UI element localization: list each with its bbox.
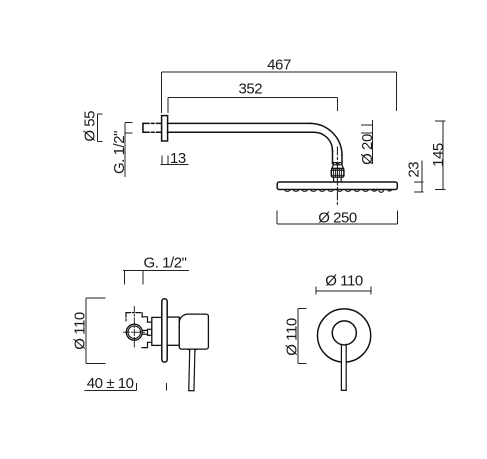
- cartridge sleeve: [167, 317, 179, 345]
- pipe centerline: [336, 147, 338, 206]
- handle base circle: [332, 321, 356, 345]
- dimension 145: [442, 121, 444, 190]
- svg-text:352: 352: [238, 80, 262, 97]
- connector collar tabs: [333, 163, 342, 167]
- svg-text:Ø 55: Ø 55: [82, 111, 99, 142]
- svg-text:Ø 110: Ø 110: [284, 318, 301, 356]
- svg-text:G. 1/2": G. 1/2": [143, 254, 186, 271]
- nozzle bumps under head: [285, 190, 392, 193]
- svg-text:467: 467: [267, 57, 291, 74]
- svg-text:23: 23: [406, 162, 423, 178]
- shower head plate: [277, 182, 397, 190]
- elbow inner arc: [314, 132, 333, 151]
- dimension D20: [371, 120, 373, 164]
- svg-text:Ø 110: Ø 110: [325, 272, 363, 289]
- housing top step: [142, 317, 152, 322]
- dimension 40 +/- 10: [85, 390, 137, 392]
- escutcheon outer circle: [318, 309, 371, 362]
- arm wall flange: [162, 116, 168, 141]
- arm pipe bottom line: [168, 131, 314, 133]
- dimension 467: [162, 71, 397, 73]
- arm pipe top line: [168, 122, 310, 124]
- handle body: [179, 314, 208, 349]
- dimension 13: [160, 164, 188, 166]
- lever fillets: [188, 349, 197, 351]
- valve body (behind wall): [152, 317, 162, 345]
- dimension D55: [96, 114, 98, 142]
- svg-text:145: 145: [430, 143, 447, 167]
- connector knurled nut: [331, 169, 344, 178]
- dimension D110 (top): [316, 290, 371, 292]
- nipple to valve body: [142, 329, 152, 335]
- elbow centerlines (dash-dot): [124, 307, 146, 348]
- dimension 352: [168, 96, 337, 98]
- svg-text:G. 1/2": G. 1/2": [111, 131, 128, 174]
- svg-text:Ø 20: Ø 20: [359, 134, 376, 165]
- label G 1/2 leader: [123, 270, 189, 272]
- dimension D110 (left): [297, 309, 299, 364]
- label G 1/2 leader: [124, 130, 126, 177]
- elbow outer arc: [310, 123, 342, 155]
- svg-text:Ø 110: Ø 110: [71, 312, 88, 350]
- vertical pipe: [341, 155, 343, 163]
- handle lever: [189, 347, 195, 391]
- svg-text:13: 13: [170, 150, 186, 167]
- supply elbow outer circle: [126, 324, 142, 340]
- svg-text:40 ± 10: 40 ± 10: [87, 375, 134, 392]
- housing bottom step: [142, 342, 152, 347]
- dimension 23: [421, 161, 423, 193]
- dimension D110 (left): [85, 298, 87, 364]
- dimension D250: [277, 223, 398, 225]
- handle stem: [341, 344, 346, 390]
- connector flare: [332, 165, 344, 169]
- wall escutcheon (side view): [162, 299, 167, 362]
- hidden supply outline (dashed): [126, 313, 142, 322]
- svg-text:Ø 250: Ø 250: [318, 209, 357, 226]
- connector lower neck: [334, 177, 342, 182]
- wall nipple (hidden, dashed): [143, 123, 162, 132]
- supply elbow inner circle: [128, 326, 141, 339]
